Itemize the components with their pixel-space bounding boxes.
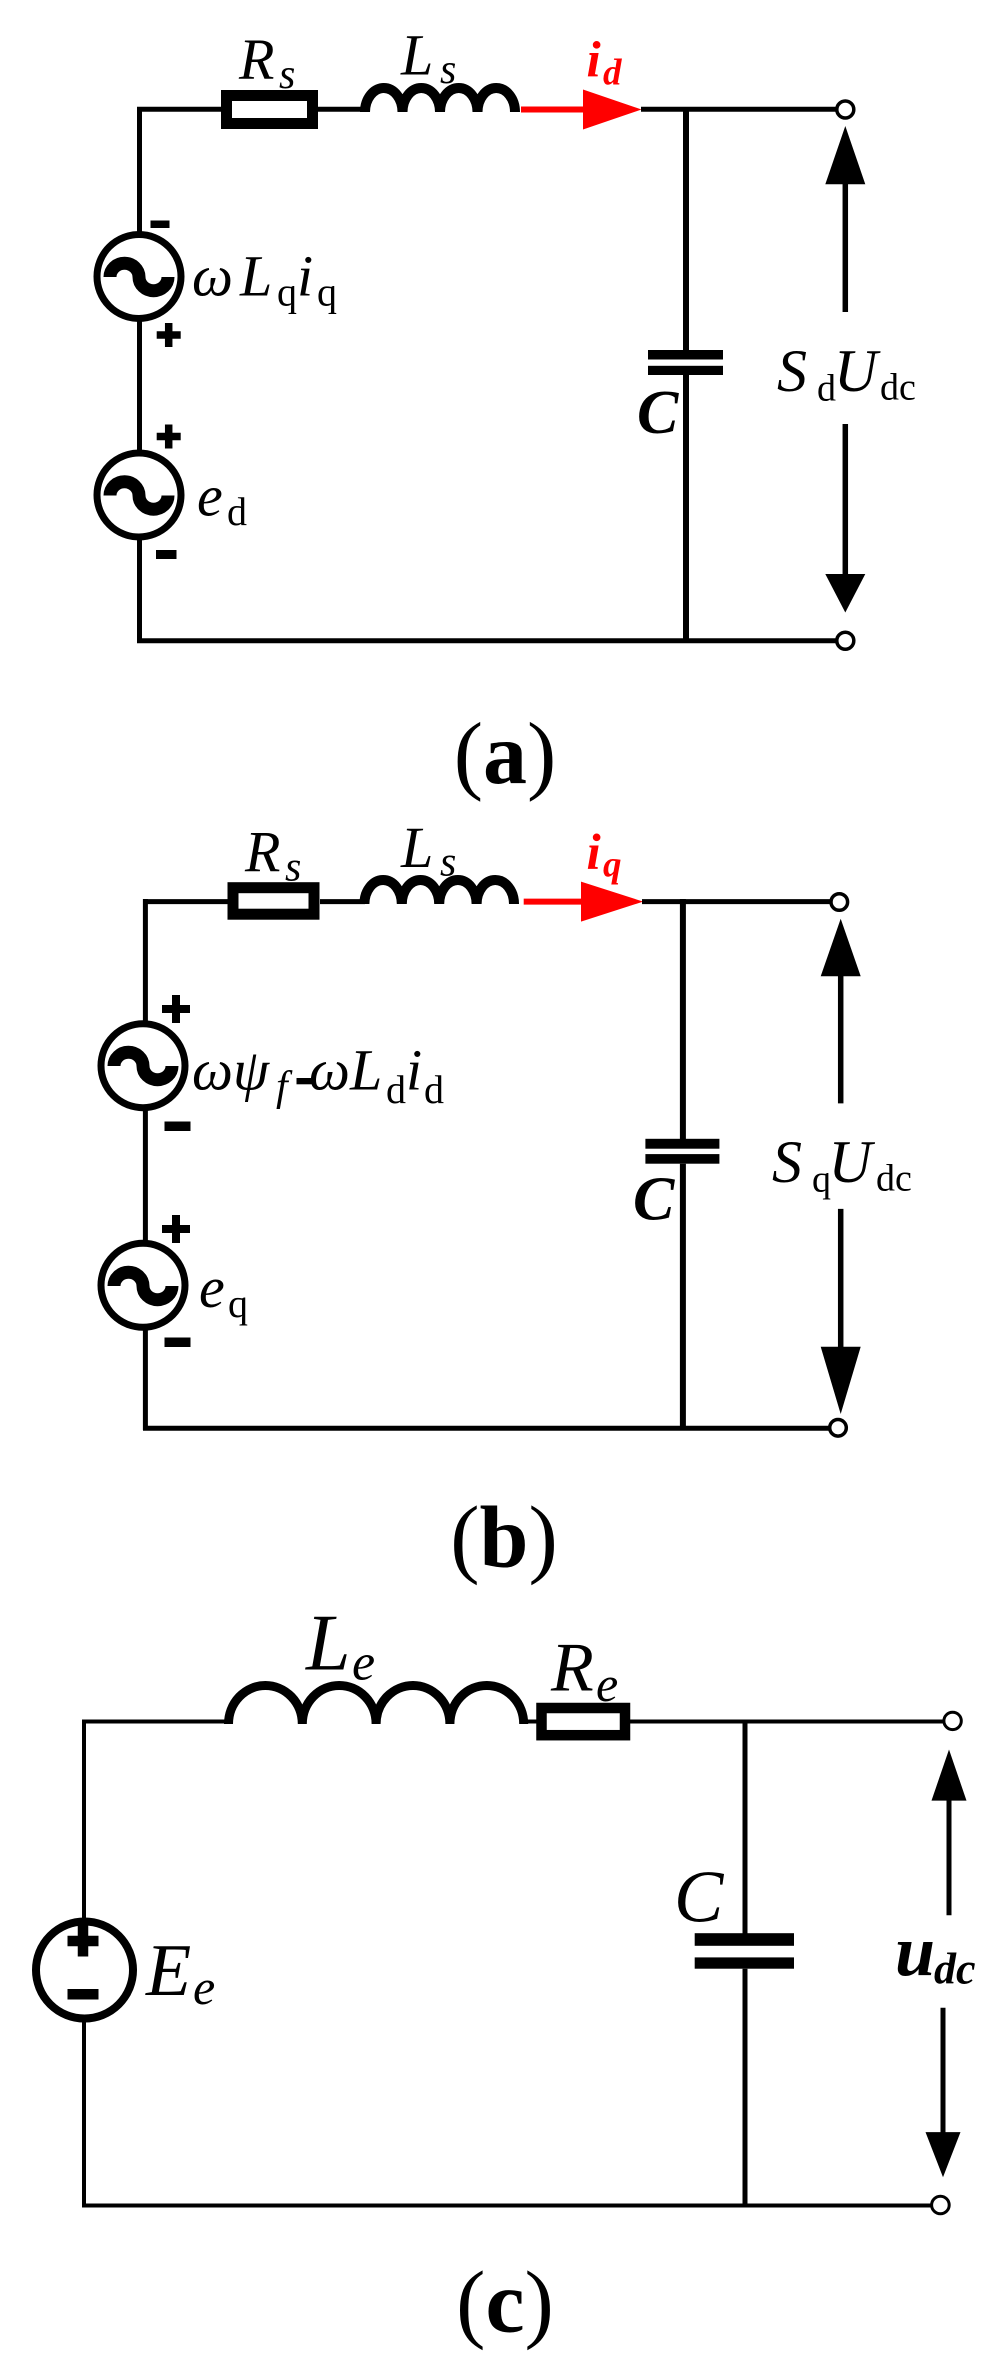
wire: (a) left vertical upper <box>137 107 142 236</box>
wire: (b) top-right segment <box>642 899 831 904</box>
svg-text:i: i <box>587 33 601 89</box>
svg-text:L: L <box>400 815 433 880</box>
svg-text:d: d <box>603 53 622 94</box>
svg-text:E: E <box>145 1930 191 2012</box>
svg-text:u: u <box>895 1911 935 1991</box>
inductor Ls (b) <box>364 880 514 904</box>
svg-text:q: q <box>603 845 622 886</box>
svg-text:R: R <box>550 1630 594 1707</box>
svg-text:dc: dc <box>876 1158 912 1200</box>
terminal (b) top <box>831 894 848 911</box>
wire: (c) left vertical upper <box>82 1720 86 1924</box>
inductor Le (c) <box>229 1686 524 1725</box>
svg-text:d: d <box>424 1067 444 1112</box>
svg-text:e: e <box>193 1959 215 2015</box>
capacitor C (a) <box>648 350 723 360</box>
voltage arrow down (b) <box>838 1209 844 1349</box>
svg-text:R: R <box>238 27 274 92</box>
capacitor C (c) <box>695 1933 794 1946</box>
wire: (a) capacitor branch upper <box>683 107 689 350</box>
voltage arrow down (c) <box>941 2008 946 2135</box>
svg-text:e: e <box>596 1656 618 1712</box>
svg-text:q: q <box>228 1281 248 1326</box>
wire: (a) top between resistor and inductor <box>318 107 366 112</box>
voltage arrow up (c) <box>947 1798 952 1915</box>
svg-text:d: d <box>386 1067 406 1112</box>
wire: (c) top between inductor and resistor <box>523 1720 542 1724</box>
wire: (c) top-left segment <box>82 1720 229 1724</box>
svg-text:(b): (b) <box>450 1490 558 1587</box>
svg-text:i: i <box>406 1038 422 1103</box>
wire: (b) left vertical lower <box>143 1327 148 1430</box>
polarity minus below source wpsi (b) <box>165 1122 191 1132</box>
terminal (a) bottom <box>837 632 854 649</box>
svg-text:dc: dc <box>880 367 916 409</box>
wire: (a) top-right segment <box>641 107 837 112</box>
terminal (c) bottom <box>932 2196 950 2214</box>
source eq (b) <box>101 1243 185 1327</box>
wire: (a) bottom <box>137 638 837 643</box>
wire: (c) left vertical lower <box>82 2017 86 2208</box>
svg-text:s: s <box>279 52 295 98</box>
polarity plus above source ed <box>157 425 181 449</box>
terminal (b) bottom <box>830 1420 847 1437</box>
svg-text:R: R <box>244 819 280 884</box>
resistor Rs (a) <box>227 96 313 124</box>
polarity minus inside Ee <box>68 1989 99 2000</box>
source ed (a) <box>97 453 181 537</box>
svg-text:i: i <box>297 244 313 309</box>
polarity minus below source ed <box>156 550 177 559</box>
svg-text:L: L <box>305 1600 351 1688</box>
svg-text:s: s <box>440 840 456 886</box>
svg-text:s: s <box>440 47 456 93</box>
svg-text:C: C <box>674 1857 725 1939</box>
svg-text:C: C <box>637 379 679 447</box>
polarity minus below source eq (b) <box>165 1338 191 1348</box>
polarity plus inside Ee <box>68 1926 99 1957</box>
voltage arrow up (a) <box>843 182 849 312</box>
wire: (a) left vertical lower <box>137 537 142 643</box>
wire: (a) capacitor branch lower <box>683 375 689 643</box>
svg-text:q: q <box>277 270 297 315</box>
inductor Ls (a) <box>365 88 515 112</box>
svg-text:L: L <box>239 244 272 309</box>
wire: (b) bottom <box>143 1426 830 1431</box>
svg-text:e: e <box>197 463 223 528</box>
svg-text:ω: ω <box>192 244 233 309</box>
svg-text:q: q <box>317 270 337 315</box>
wire: (b) top-left segment <box>143 899 228 904</box>
voltage arrow down (a) <box>843 424 849 577</box>
polarity plus below source wLqiq <box>157 323 181 347</box>
svg-text:U: U <box>829 1129 876 1195</box>
wire: (a) red current arrow id <box>521 107 586 113</box>
svg-text:ωL: ωL <box>309 1038 382 1103</box>
source wpsi f - wLd id (b) <box>101 1024 185 1108</box>
svg-text:e: e <box>352 1634 375 1691</box>
svg-text:(a): (a) <box>454 706 557 803</box>
svg-text:s: s <box>285 844 301 890</box>
wire: (a) top-left segment <box>137 107 222 112</box>
source wLq iq (a) <box>97 235 181 319</box>
wire: (c) top-right segment <box>630 1720 944 1724</box>
wire: (c) capacitor branch upper <box>743 1720 748 1935</box>
capacitor C (b) <box>645 1139 719 1149</box>
svg-text:S: S <box>777 338 807 404</box>
svg-text:S: S <box>772 1129 802 1195</box>
svg-text:L: L <box>400 23 433 88</box>
terminal (c) top <box>944 1712 961 1729</box>
resistor Rs (b) <box>233 888 314 915</box>
svg-text:dc: dc <box>934 1945 976 1994</box>
voltage arrow up (b) <box>838 974 844 1103</box>
wire: (b) left vertical upper <box>143 899 148 1025</box>
svg-text:i: i <box>587 825 601 881</box>
wire: (b) red current arrow iq <box>524 899 584 905</box>
wire: (b) top between resistor and inductor <box>320 899 365 904</box>
source Ee (c) <box>36 1922 133 2019</box>
wire: (b) capacitor branch upper <box>680 899 686 1139</box>
polarity plus above source wpsi (b) <box>162 995 190 1023</box>
wire: (c) bottom <box>82 2204 932 2208</box>
wire: (b) capacitor branch lower <box>680 1164 686 1430</box>
svg-text:U: U <box>834 338 881 404</box>
svg-text:e: e <box>199 1255 225 1320</box>
wire: (a) left vertical middle <box>137 318 142 453</box>
wire: (b) left vertical middle <box>143 1107 148 1245</box>
svg-text:(c): (c) <box>456 2255 554 2352</box>
wire: (c) capacitor branch lower <box>743 1969 748 2208</box>
terminal (a) top <box>837 101 854 118</box>
svg-text:d: d <box>227 489 247 534</box>
svg-text:ωψ: ωψ <box>192 1038 270 1103</box>
resistor Re (c) <box>542 1708 626 1735</box>
polarity minus above source wLqiq <box>151 221 170 229</box>
svg-text:C: C <box>633 1165 675 1233</box>
polarity plus above source eq (b) <box>162 1215 190 1243</box>
